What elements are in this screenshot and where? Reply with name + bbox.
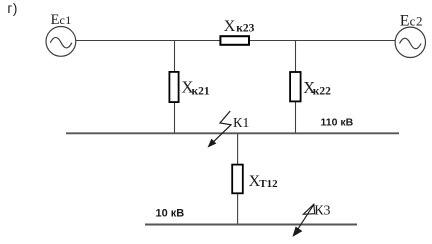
svg-text:г): г): [7, 1, 18, 16]
svg-text:X: X: [224, 18, 236, 35]
generator Ec1: [46, 27, 76, 57]
svg-text:К3: К3: [314, 204, 330, 219]
svg-text:к21: к21: [192, 86, 210, 98]
bus 110 kV: [66, 132, 399, 134]
wire: top horizontal between generators: [76, 40, 395, 42]
resistor Xк23: [220, 36, 249, 45]
svg-text:Eс2: Eс2: [400, 13, 423, 30]
resistor Xк22: [290, 72, 301, 101]
svg-text:К1: К1: [233, 116, 249, 131]
fault K3 angle arrow: [293, 204, 315, 236]
bus 10 kV: [145, 224, 357, 226]
resistor Xк21: [169, 72, 178, 102]
svg-text:110 кВ: 110 кВ: [321, 116, 354, 128]
svg-text:Eс1: Eс1: [51, 12, 72, 28]
wire: vertical from 110kV bus through XT12 down to 10kV bus: [237, 133, 239, 225]
svg-text:к23: к23: [236, 23, 254, 35]
resistor XT12: [232, 165, 243, 194]
svg-text:10 кВ: 10 кВ: [156, 207, 185, 219]
wire: vertical right branch to Xк22: [295, 41, 297, 134]
generator Ec2: [395, 27, 425, 57]
fault K1 lightning arrow: [208, 111, 231, 147]
svg-text:Т12: Т12: [259, 178, 278, 190]
svg-text:к22: к22: [313, 86, 331, 98]
wire: vertical left branch to Xк21: [174, 41, 176, 134]
